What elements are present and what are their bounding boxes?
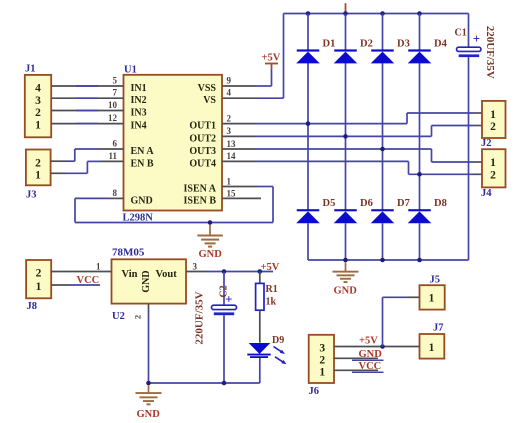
wire J8.2 to U2 Vin xyxy=(51,271,111,273)
diode D6 xyxy=(334,198,373,223)
svg-text:3: 3 xyxy=(35,95,41,107)
wire OUT1 to J2.1 xyxy=(222,113,482,124)
svg-text:1: 1 xyxy=(227,176,232,186)
junction dot +5V branch xyxy=(380,344,385,349)
svg-text:15: 15 xyxy=(227,188,237,198)
svg-text:D3: D3 xyxy=(397,39,410,50)
svg-text:IN3: IN3 xyxy=(131,108,147,119)
svg-text:J3: J3 xyxy=(26,190,37,201)
svg-text:7: 7 xyxy=(113,88,118,98)
junction dots on VS rail xyxy=(306,11,422,16)
svg-text:D6: D6 xyxy=(360,198,373,209)
junction dot U1 ground xyxy=(208,220,213,225)
junction dot C2 tap xyxy=(222,269,227,274)
wire J6.1 VCC stub xyxy=(334,370,384,372)
svg-text:D4: D4 xyxy=(434,39,448,50)
capacitor C1 xyxy=(455,26,496,79)
svg-text:IN2: IN2 xyxy=(131,95,147,106)
connector J3 xyxy=(26,150,51,201)
wire diode column 4 xyxy=(419,14,421,261)
svg-text:3: 3 xyxy=(319,343,325,355)
svg-text:OUT2: OUT2 xyxy=(189,133,216,144)
wire D9 to ground rail xyxy=(259,358,261,383)
svg-text:13: 13 xyxy=(227,139,237,149)
wire VSS to +5V xyxy=(222,70,272,87)
ground symbol diode rail xyxy=(333,262,359,296)
svg-text:220UF/35V: 220UF/35V xyxy=(484,26,496,79)
svg-text:R1: R1 xyxy=(266,284,278,295)
svg-text:4: 4 xyxy=(35,83,41,95)
wire R1 to D9 xyxy=(259,310,261,343)
svg-text:GND: GND xyxy=(137,409,161,420)
wire C2 top xyxy=(223,272,225,306)
svg-text:1: 1 xyxy=(36,281,42,293)
wire U2 GND pin down xyxy=(148,304,150,383)
svg-text:1: 1 xyxy=(319,366,325,378)
svg-text:2: 2 xyxy=(319,354,325,366)
junction dots on GND rail xyxy=(343,258,422,263)
wire J6.2 GND stub xyxy=(334,358,384,360)
wire OUT2 to J2.2 xyxy=(222,126,482,137)
svg-text:D1: D1 xyxy=(323,39,336,50)
svg-text:GND: GND xyxy=(141,270,152,292)
svg-text:IN4: IN4 xyxy=(131,121,147,132)
connector J1 xyxy=(25,64,51,138)
wire J3.2 to EN A xyxy=(51,149,124,161)
svg-text:U2: U2 xyxy=(112,311,125,322)
svg-text:2: 2 xyxy=(490,169,496,181)
svg-text:14: 14 xyxy=(227,151,237,161)
svg-text:IN1: IN1 xyxy=(131,83,147,94)
svg-text:GND: GND xyxy=(131,195,153,206)
connector J4 xyxy=(481,149,506,199)
wire diode column 1 xyxy=(307,14,309,261)
svg-text:J5: J5 xyxy=(430,275,441,286)
svg-text:GND: GND xyxy=(199,249,223,260)
GND rail under diodes xyxy=(308,259,469,261)
svg-text:ISEN A: ISEN A xyxy=(183,184,216,195)
svg-text:VCC: VCC xyxy=(359,361,382,372)
svg-text:OUT1: OUT1 xyxy=(189,121,216,132)
svg-text:D5: D5 xyxy=(323,198,336,209)
U1 pin numbers right xyxy=(227,76,237,199)
svg-text:9: 9 xyxy=(227,76,232,86)
svg-text:J4: J4 xyxy=(481,188,492,199)
junction dot C2 ground xyxy=(222,381,227,386)
wire R1 top xyxy=(259,272,261,284)
svg-text:12: 12 xyxy=(108,113,118,123)
U1 pin numbers left xyxy=(108,76,118,198)
diode D7 xyxy=(371,198,410,223)
svg-text:D9: D9 xyxy=(272,335,284,346)
svg-text:GND: GND xyxy=(334,285,358,296)
wire ISEN A to ground xyxy=(222,187,273,223)
connector J8 xyxy=(26,260,51,312)
wire C1 top xyxy=(468,14,470,48)
wire C1 to GND rail xyxy=(468,57,470,260)
svg-text:3: 3 xyxy=(193,262,198,272)
svg-text:2: 2 xyxy=(35,158,41,170)
svg-text:OUT3: OUT3 xyxy=(189,146,216,157)
wire branch to J5.1 xyxy=(383,297,420,346)
ground symbol U1 xyxy=(197,225,223,260)
wire U2 Vout +5V net xyxy=(186,271,273,273)
svg-text:2: 2 xyxy=(133,315,143,319)
svg-text:2: 2 xyxy=(490,121,496,133)
svg-text:5: 5 xyxy=(113,76,118,86)
svg-text:ISEN B: ISEN B xyxy=(183,195,216,206)
svg-text:1: 1 xyxy=(429,342,435,354)
junction dot OUT3 column3 xyxy=(380,147,385,152)
connector J7 xyxy=(420,323,445,359)
wire J8.1 VCC stub xyxy=(51,284,100,286)
svg-text:GND: GND xyxy=(359,349,383,360)
diode D4 xyxy=(408,39,448,64)
wire diode column 3 xyxy=(382,14,384,261)
wire J1.4 to IN1 xyxy=(51,85,123,87)
connector J6 xyxy=(309,335,335,397)
svg-text:J7: J7 xyxy=(433,323,444,334)
wire VS rail to U1 pin 4 xyxy=(222,14,284,99)
svg-text:+: + xyxy=(473,31,480,46)
diode D8 xyxy=(408,198,447,223)
wire J6.3 +5V to J7.1 xyxy=(334,346,420,348)
IC U1 L298N xyxy=(123,65,223,224)
svg-text:+5V: +5V xyxy=(359,336,378,347)
wire J1.2 to IN3 xyxy=(51,110,123,112)
wire J1.3 to IN2 xyxy=(51,97,123,99)
svg-text:OUT4: OUT4 xyxy=(189,158,216,169)
svg-text:4: 4 xyxy=(227,88,232,98)
svg-text:1: 1 xyxy=(490,157,496,169)
svg-text:8: 8 xyxy=(113,188,118,198)
regulator U2 78M05 xyxy=(112,247,187,323)
svg-text:220UF/35V: 220UF/35V xyxy=(193,291,205,344)
wire VS top rail xyxy=(284,13,469,15)
svg-text:EN B: EN B xyxy=(131,158,154,169)
svg-text:J6: J6 xyxy=(309,386,320,397)
svg-text:D8: D8 xyxy=(434,198,447,209)
ground symbol bottom left xyxy=(136,385,162,420)
LED D9 xyxy=(247,335,286,364)
ground rail bottom left xyxy=(149,382,260,384)
capacitor C2 xyxy=(193,285,236,344)
wire OUT3 to J4.1 xyxy=(222,149,482,162)
svg-text:3: 3 xyxy=(227,126,232,136)
svg-text:EN A: EN A xyxy=(131,146,155,157)
wire J3.1 to EN B xyxy=(51,161,124,173)
wire OUT4 to J4.2 xyxy=(222,161,482,174)
svg-text:1: 1 xyxy=(429,293,435,305)
junction dot R1 tap xyxy=(258,269,263,274)
wire ISEN B stub xyxy=(222,197,261,199)
svg-text:D7: D7 xyxy=(397,198,410,209)
diode D3 xyxy=(371,39,410,64)
svg-text:U1: U1 xyxy=(124,65,137,76)
+12V stub at top rail xyxy=(345,3,347,13)
svg-text:C1: C1 xyxy=(455,28,467,39)
power +5V near U1 xyxy=(262,53,281,70)
junction dot U2 ground xyxy=(146,381,151,386)
wire diode column 2 xyxy=(345,14,347,261)
svg-text:VS: VS xyxy=(203,95,216,106)
wire U1 GND pin 8 to ground xyxy=(75,198,273,222)
wire J1.1 to IN4 xyxy=(51,123,123,125)
svg-text:6: 6 xyxy=(113,139,118,149)
diode D2 xyxy=(334,39,373,64)
svg-text:1k: 1k xyxy=(266,297,277,308)
svg-text:2: 2 xyxy=(227,114,232,124)
svg-text:VCC: VCC xyxy=(77,275,100,286)
svg-text:VSS: VSS xyxy=(198,83,217,94)
svg-text:Vout: Vout xyxy=(156,269,178,280)
wire C2 bottom xyxy=(223,315,225,383)
resistor R1 xyxy=(256,283,278,310)
svg-text:+5V: +5V xyxy=(261,262,280,273)
svg-text:+5V: +5V xyxy=(262,53,281,64)
svg-text:D2: D2 xyxy=(360,39,373,50)
svg-text:11: 11 xyxy=(108,151,117,161)
connector J2 xyxy=(481,101,506,149)
svg-text:1: 1 xyxy=(35,170,41,182)
svg-text:1: 1 xyxy=(35,120,41,132)
svg-text:10: 10 xyxy=(108,100,118,110)
junction dot OUT4 column4 xyxy=(417,172,422,177)
diode D5 xyxy=(296,198,335,223)
diode D1 xyxy=(296,39,335,64)
svg-text:J8: J8 xyxy=(27,301,38,312)
svg-text:Vin: Vin xyxy=(122,269,138,280)
svg-text:C2: C2 xyxy=(219,285,230,297)
svg-text:78M05: 78M05 xyxy=(112,247,145,259)
svg-text:J2: J2 xyxy=(481,138,492,149)
svg-text:2: 2 xyxy=(35,107,41,119)
junction dot OUT1 column1 xyxy=(306,121,311,126)
svg-text:J1: J1 xyxy=(25,64,36,75)
svg-text:2: 2 xyxy=(36,268,42,280)
svg-text:1: 1 xyxy=(490,109,496,121)
junction dot OUT2 column2 xyxy=(343,134,348,139)
connector J5 xyxy=(420,275,445,310)
svg-text:1: 1 xyxy=(96,262,101,272)
